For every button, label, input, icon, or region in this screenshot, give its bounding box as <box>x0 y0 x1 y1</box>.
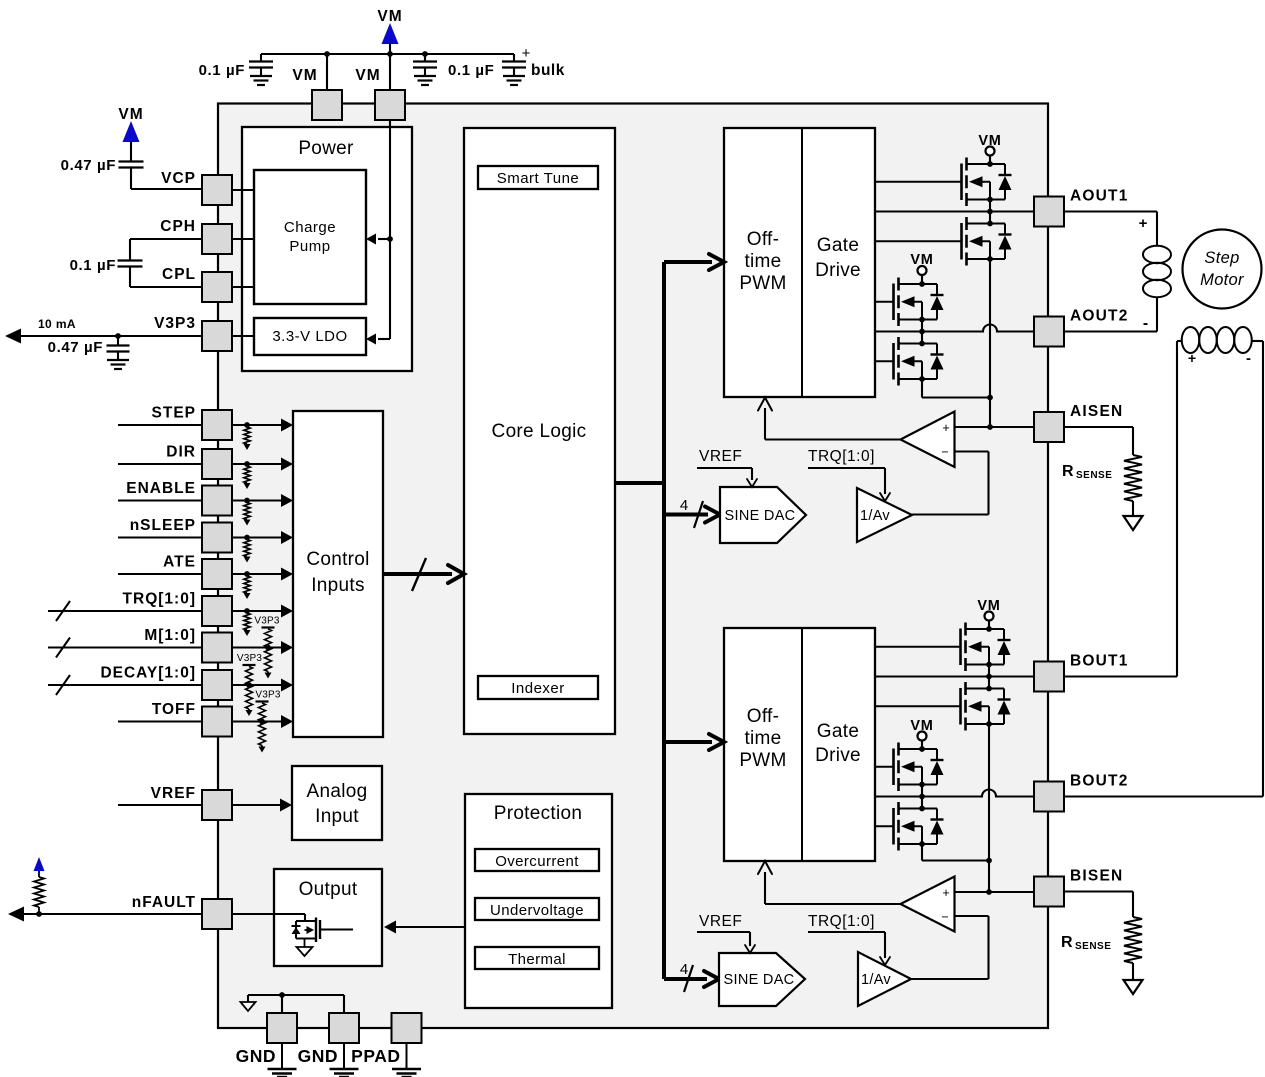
svg-text:SINE DAC: SINE DAC <box>725 508 796 524</box>
svg-text:STEP: STEP <box>152 405 196 422</box>
svg-text:GND: GND <box>236 1046 276 1066</box>
svg-text:TRQ[1:0]: TRQ[1:0] <box>808 913 875 930</box>
svg-text:V3P3: V3P3 <box>154 315 196 332</box>
svg-text:R: R <box>1062 463 1074 480</box>
svg-text:TRQ[1:0]: TRQ[1:0] <box>808 448 875 465</box>
svg-text:Off-: Off- <box>747 229 780 250</box>
svg-text:PWM: PWM <box>739 750 786 771</box>
svg-text:−: − <box>941 445 948 459</box>
svg-text:Smart Tune: Smart Tune <box>497 170 580 187</box>
svg-text:ENABLE: ENABLE <box>126 480 196 497</box>
svg-text:10 mA: 10 mA <box>38 317 76 331</box>
svg-text:Power: Power <box>298 138 354 159</box>
svg-text:CPH: CPH <box>160 218 196 235</box>
svg-text:VM: VM <box>377 8 402 25</box>
svg-text:DIR: DIR <box>166 444 196 461</box>
svg-text:CPL: CPL <box>162 266 196 283</box>
svg-text:VCP: VCP <box>161 170 196 187</box>
svg-text:+: + <box>1188 350 1197 366</box>
svg-text:Output: Output <box>299 879 358 900</box>
svg-text:Input: Input <box>315 806 359 827</box>
svg-text:3.3-V LDO: 3.3-V LDO <box>272 328 347 345</box>
svg-text:Drive: Drive <box>815 260 861 281</box>
svg-text:V3P3: V3P3 <box>237 653 263 664</box>
svg-text:SINE DAC: SINE DAC <box>724 972 795 988</box>
svg-text:nFAULT: nFAULT <box>132 894 196 911</box>
svg-text:TRQ[1:0]: TRQ[1:0] <box>123 591 196 608</box>
svg-text:+: + <box>942 421 949 435</box>
svg-text:BOUT1: BOUT1 <box>1070 653 1129 670</box>
svg-text:1/Av: 1/Av <box>860 508 890 524</box>
svg-text:Motor: Motor <box>1200 271 1245 289</box>
svg-text:Drive: Drive <box>815 745 861 766</box>
svg-text:nSLEEP: nSLEEP <box>130 517 196 534</box>
svg-text:Control: Control <box>306 549 369 570</box>
svg-text:BOUT2: BOUT2 <box>1070 773 1129 790</box>
svg-text:V3P3: V3P3 <box>254 616 280 627</box>
svg-text:AOUT1: AOUT1 <box>1070 188 1129 205</box>
svg-text:Analog: Analog <box>307 781 368 802</box>
svg-text:VM: VM <box>355 67 380 84</box>
svg-text:Pump: Pump <box>289 238 330 255</box>
svg-text:4: 4 <box>680 497 688 514</box>
svg-text:Indexer: Indexer <box>511 680 565 697</box>
svg-text:Inputs: Inputs <box>311 575 365 596</box>
svg-text:time: time <box>744 251 781 272</box>
svg-text:AOUT2: AOUT2 <box>1070 308 1129 325</box>
svg-text:GND: GND <box>298 1046 338 1066</box>
svg-text:Charge: Charge <box>284 219 336 236</box>
svg-text:bulk: bulk <box>531 62 565 79</box>
svg-text:V3P3: V3P3 <box>255 690 281 701</box>
svg-text:+: + <box>942 886 949 900</box>
svg-text:M[1:0]: M[1:0] <box>144 627 196 644</box>
svg-text:VREF: VREF <box>699 448 742 465</box>
svg-text:+: + <box>522 45 531 62</box>
svg-text:0.47 µF: 0.47 µF <box>48 339 103 356</box>
svg-text:VREF: VREF <box>699 913 742 930</box>
svg-text:0.47 µF: 0.47 µF <box>61 157 116 174</box>
svg-text:Core Logic: Core Logic <box>492 421 587 442</box>
svg-text:time: time <box>744 728 781 749</box>
svg-text:Step: Step <box>1204 249 1239 267</box>
svg-text:-: - <box>1143 315 1149 332</box>
svg-text:TOFF: TOFF <box>152 701 196 718</box>
svg-text:VM: VM <box>118 106 143 123</box>
svg-text:PWM: PWM <box>739 273 786 294</box>
svg-text:1/Av: 1/Av <box>861 972 891 988</box>
svg-text:VREF: VREF <box>151 785 196 802</box>
svg-text:AISEN: AISEN <box>1070 403 1123 420</box>
svg-text:BISEN: BISEN <box>1070 868 1123 885</box>
svg-text:Thermal: Thermal <box>508 951 566 968</box>
svg-text:SENSE: SENSE <box>1076 470 1112 481</box>
svg-text:0.1 µF: 0.1 µF <box>70 257 116 274</box>
svg-text:4: 4 <box>680 961 688 978</box>
svg-text:R: R <box>1061 934 1073 951</box>
svg-text:ATE: ATE <box>163 554 196 571</box>
svg-text:SENSE: SENSE <box>1075 941 1111 952</box>
svg-text:Undervoltage: Undervoltage <box>490 902 584 919</box>
svg-text:Gate: Gate <box>817 721 859 742</box>
svg-text:+: + <box>1139 215 1149 232</box>
svg-text:Overcurrent: Overcurrent <box>495 853 579 870</box>
svg-text:Protection: Protection <box>494 803 583 824</box>
svg-text:0.1 µF: 0.1 µF <box>448 62 494 79</box>
svg-text:-: - <box>1246 350 1252 367</box>
svg-text:−: − <box>941 910 948 924</box>
svg-text:0.1 µF: 0.1 µF <box>199 62 245 79</box>
svg-text:DECAY[1:0]: DECAY[1:0] <box>100 665 196 682</box>
svg-text:Gate: Gate <box>817 235 859 256</box>
svg-text:Off-: Off- <box>747 706 780 727</box>
svg-text:PPAD: PPAD <box>351 1046 400 1066</box>
svg-text:VM: VM <box>292 67 317 84</box>
